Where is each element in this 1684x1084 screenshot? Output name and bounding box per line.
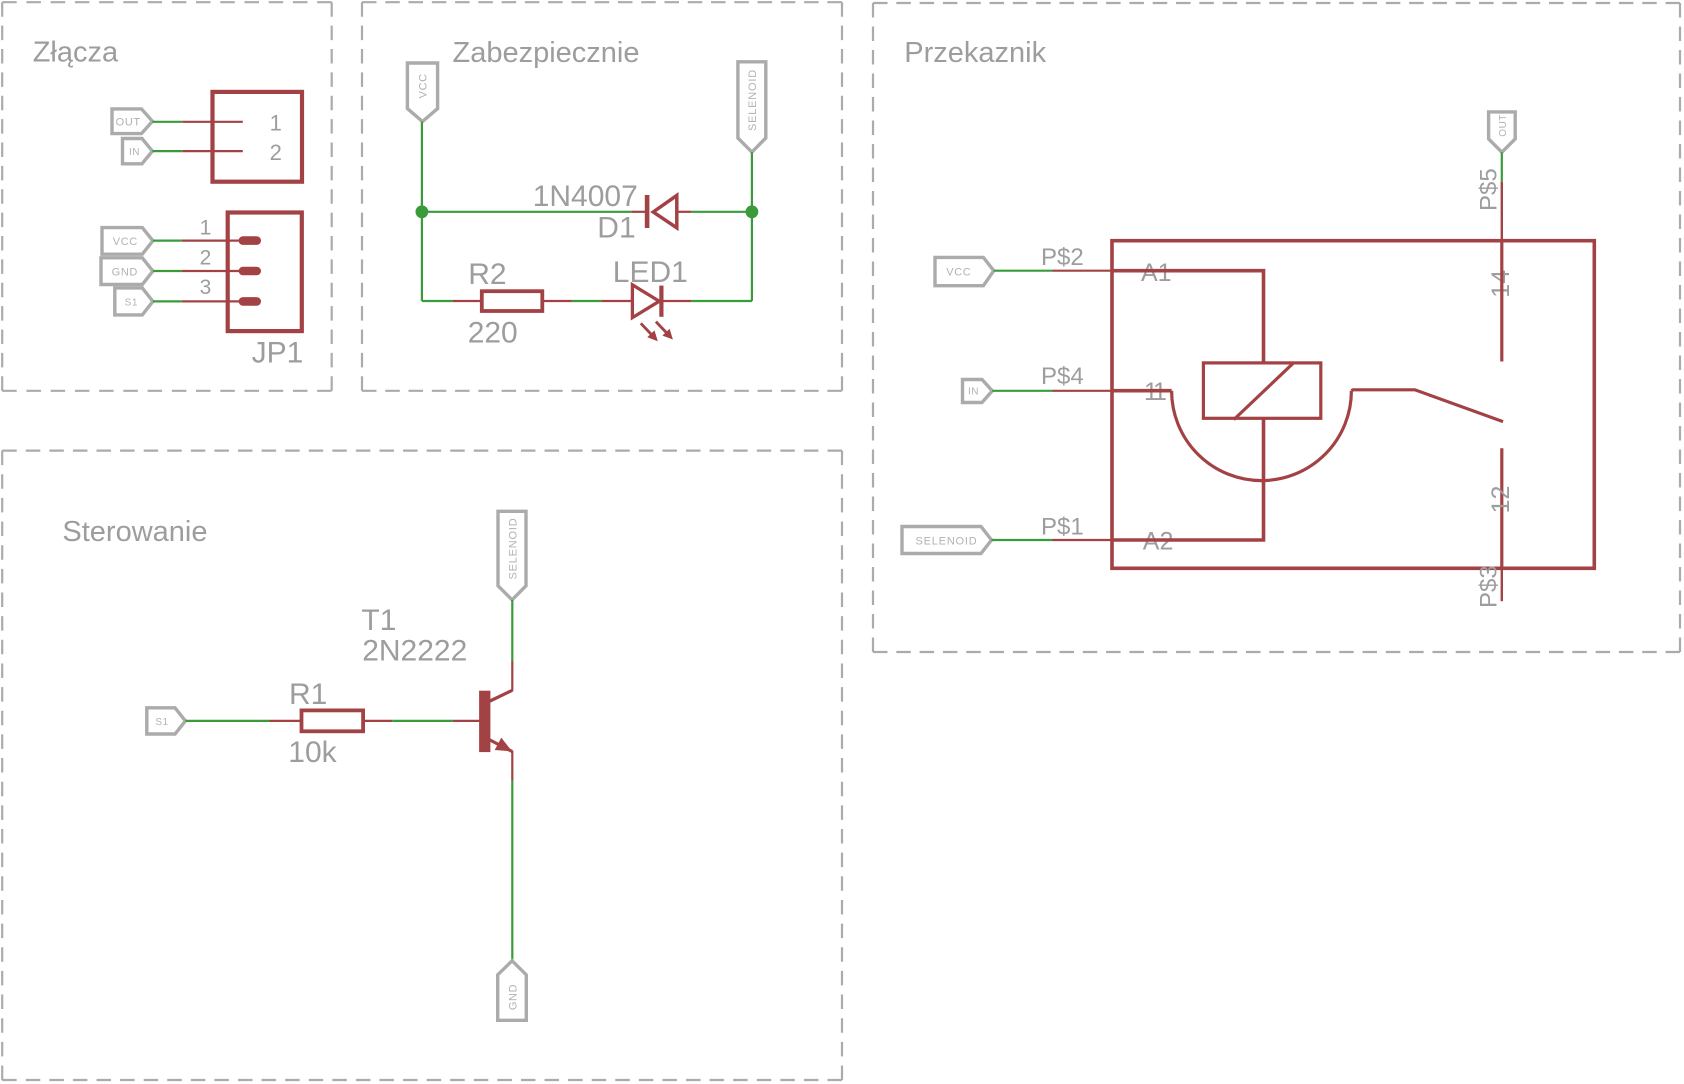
svg-text:S1: S1 <box>125 298 138 309</box>
frame Przekaznik section <box>873 3 1680 652</box>
junction at SELENOID <box>746 205 759 218</box>
resistor R2 pin 1 <box>453 300 481 302</box>
frame Zabezpiecznie section <box>362 2 842 391</box>
relay wire A2 to coil <box>1112 418 1264 540</box>
LED1 triangle <box>632 285 659 318</box>
wire top horizontal VCC to D1 <box>422 211 631 213</box>
wire net SELENOID to T1 collector <box>511 600 513 661</box>
wire net IN to P$4 <box>992 390 1052 392</box>
relay contact 14 vertical <box>1500 241 1503 362</box>
node VCC flag <box>102 228 153 255</box>
svg-text:JP1: JP1 <box>252 337 304 370</box>
wire net OUT to pin 1 <box>152 121 182 123</box>
svg-text:2: 2 <box>200 247 212 270</box>
resistor R1 body <box>302 710 364 731</box>
transistor T1 collector pin <box>511 661 513 691</box>
svg-text:SELENOID: SELENOID <box>507 517 519 579</box>
pin 2 of connector X1 <box>182 150 243 152</box>
pin 2 of JP1 <box>182 270 240 272</box>
wire net VCC to JP1 pin 1 <box>153 240 182 242</box>
node OUT flag <box>112 109 152 134</box>
wire D1 to SELENOID <box>691 211 752 213</box>
pin 1 of JP1 <box>182 240 240 242</box>
svg-text:P$4: P$4 <box>1041 363 1084 390</box>
diode D1 cathode pin <box>631 211 645 213</box>
resistor R1 pin 2 <box>364 720 392 722</box>
svg-text:VCC: VCC <box>946 266 971 278</box>
resistor R2 body <box>482 291 543 311</box>
svg-text:P$5: P$5 <box>1476 168 1503 211</box>
svg-text:S1: S1 <box>155 717 168 728</box>
node SELENOID flag <box>498 511 526 600</box>
pad 3 of JP1 <box>239 297 261 306</box>
svg-text:2N2222: 2N2222 <box>362 635 467 668</box>
LED1 anode pin <box>601 300 632 302</box>
svg-text:Zabezpiecznie: Zabezpiecznie <box>453 37 640 69</box>
wire net GND to JP1 pin 2 <box>153 270 182 272</box>
connector JP1 body <box>228 213 302 332</box>
pin 3 of JP1 <box>182 300 240 302</box>
relay armature arc <box>1172 391 1352 481</box>
wire VCC vertical <box>421 122 423 302</box>
pin P$5 of relay <box>1501 182 1503 241</box>
transistor T1 base pin <box>453 720 480 722</box>
LED1 cathode bar <box>659 286 663 317</box>
transistor T1 collector line <box>489 690 512 701</box>
frame Sterowanie section <box>2 451 842 1080</box>
svg-text:1N4007: 1N4007 <box>533 180 638 213</box>
svg-text:A1: A1 <box>1141 259 1172 287</box>
svg-text:Przekaznik: Przekaznik <box>904 37 1046 69</box>
diode D1 triangle <box>653 195 677 227</box>
pin P$1 of relay <box>1053 539 1114 541</box>
resistor R2 pin 2 <box>543 300 572 302</box>
pin P$3 of relay <box>1501 568 1503 601</box>
LED1 light arrow 1 <box>641 323 658 341</box>
connector X1 body <box>213 92 303 182</box>
relay switch blade <box>1351 390 1503 422</box>
relay coil diagonal <box>1234 363 1293 419</box>
diode D1 anode pin <box>678 211 692 213</box>
wire net SELENOID to P$1 <box>992 539 1053 541</box>
svg-text:12: 12 <box>1487 486 1515 514</box>
pad 1 of JP1 <box>239 236 261 245</box>
node S1 flag <box>115 288 153 315</box>
ground flag GND <box>498 961 527 1021</box>
svg-text:1: 1 <box>270 110 282 135</box>
svg-text:Sterowanie: Sterowanie <box>62 516 207 548</box>
svg-text:GND: GND <box>507 984 519 1010</box>
wire SELENOID vertical <box>751 152 753 301</box>
relay contact 12 vertical <box>1500 448 1503 568</box>
LED1 cathode pin <box>664 300 692 302</box>
svg-text:P$1: P$1 <box>1041 514 1084 541</box>
power flag VCC <box>935 257 994 285</box>
relay wire pin 11 <box>1112 389 1172 393</box>
wire net IN to pin 2 <box>152 150 182 152</box>
svg-text:VCC: VCC <box>113 236 138 248</box>
svg-text:10k: 10k <box>288 736 337 769</box>
relay K1 body <box>1112 241 1594 569</box>
wire bottom left <box>422 300 453 302</box>
svg-text:VCC: VCC <box>418 73 430 98</box>
node S1 flag <box>147 708 186 734</box>
svg-text:SELENOID: SELENOID <box>915 535 977 547</box>
power flag VCC <box>407 63 437 122</box>
wire R2 to LED1 <box>572 300 601 302</box>
wire LED1 to SELENOID vertical <box>691 300 752 302</box>
wire net T1 emitter to GND <box>511 781 513 961</box>
svg-text:1: 1 <box>200 217 212 240</box>
pad 2 of JP1 <box>239 267 261 276</box>
svg-text:LED1: LED1 <box>613 256 688 289</box>
node SELENOID flag <box>902 527 992 554</box>
svg-text:220: 220 <box>468 317 518 350</box>
transistor T1 emitter arrow <box>495 738 512 752</box>
pin P$4 of relay <box>1053 390 1114 392</box>
svg-text:R1: R1 <box>289 678 327 711</box>
LED1 light arrow 2 <box>656 322 673 340</box>
node SELENOID flag <box>738 62 766 152</box>
svg-text:IN: IN <box>968 386 979 397</box>
frame Zlacza section <box>2 2 332 391</box>
svg-text:P$2: P$2 <box>1041 244 1084 271</box>
transistor T1 base bar <box>479 691 490 752</box>
svg-text:R2: R2 <box>468 258 506 291</box>
wire net VCC to P$2 <box>994 270 1053 272</box>
junction at VCC <box>416 205 429 218</box>
wire R1 to T1 base <box>392 720 453 722</box>
svg-text:GND: GND <box>112 266 138 278</box>
node IN flag <box>963 380 993 403</box>
diode D1 cathode bar <box>645 195 650 228</box>
svg-text:D1: D1 <box>597 212 635 245</box>
svg-text:SELENOID: SELENOID <box>747 69 759 131</box>
svg-text:OUT: OUT <box>1498 114 1509 137</box>
relay coil box <box>1203 363 1320 418</box>
wire net S1 to R1 <box>185 720 269 722</box>
svg-text:2: 2 <box>270 140 282 165</box>
node GND flag <box>101 258 153 285</box>
pin P$2 of relay <box>1053 270 1114 272</box>
svg-text:P$3: P$3 <box>1476 565 1503 608</box>
transistor T1 emitter pin <box>511 751 513 781</box>
svg-text:T1: T1 <box>361 604 396 637</box>
svg-text:OUT: OUT <box>116 116 141 128</box>
svg-text:3: 3 <box>200 276 212 299</box>
resistor R1 pin 1 <box>270 720 301 722</box>
wire net S1 to JP1 pin 3 <box>153 300 182 302</box>
transistor T1 emitter line <box>489 740 512 752</box>
svg-text:IN: IN <box>129 147 140 158</box>
relay wire A1 to coil <box>1112 271 1264 362</box>
pin 1 of connector X1 <box>182 121 243 123</box>
node IN flag <box>123 139 153 164</box>
node OUT flag <box>1489 112 1516 152</box>
wire net OUT to P$5 <box>1501 152 1503 182</box>
svg-text:Złącza: Złącza <box>33 37 119 69</box>
